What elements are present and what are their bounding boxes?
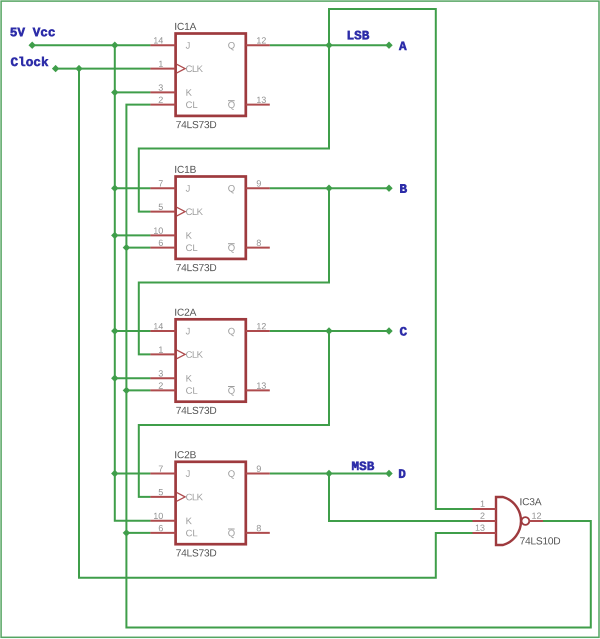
IC1A pin name CL (186, 101, 197, 108)
IC1B symbol body (176, 177, 246, 259)
net A endpoint (385, 42, 392, 49)
IC3A pin number 1 (481, 501, 485, 507)
wire net A from IC1A Q (270, 44, 389, 46)
junction CL chain at IC2A (123, 387, 130, 394)
IC3A pin number 2 (480, 513, 484, 519)
junction 5V rail 1 (111, 42, 118, 49)
IC1A pin 13 (Qbar) stub (246, 104, 270, 106)
IC3A input pin 1 stub (473, 508, 497, 510)
IC2A pin number 12 (257, 323, 266, 329)
IC2A pin 14 (J) stub (150, 330, 175, 332)
IC1A pin 1 (CLK) stub (150, 68, 175, 70)
IC1A pin number 14 (154, 37, 163, 43)
IC1B pin number 5 (159, 204, 163, 210)
IC1A pin number 2 (159, 97, 163, 103)
wire net A to IC1B CLK (139, 45, 329, 211)
net stub Clock endpoint (52, 65, 59, 72)
IC1B pin number 10 (154, 227, 163, 233)
wire net C to IC2B CLK (139, 331, 329, 497)
IC1B pin 9 (Q) stub (246, 187, 270, 189)
IC2A pin 1 (CLK) stub (150, 353, 175, 355)
NAND gate IC3A (74LS10D triple 3-input NAND) (473, 497, 561, 545)
IC3A pin number 12 (532, 513, 541, 519)
junction net B column (325, 185, 332, 192)
junction Clock rail (75, 65, 82, 72)
net label B (400, 184, 407, 192)
IC1B pin 8 (Qbar) stub (246, 247, 270, 249)
IC2A pin 12 (Q) stub (246, 330, 270, 332)
net label 5V Vcc (10, 28, 54, 37)
junction CL chain at IC2B (123, 529, 130, 536)
IC1A pin number 1 (159, 61, 163, 67)
IC1A pin 14 (J) stub (150, 44, 175, 46)
IC2A value label 74LS73D (176, 407, 216, 414)
IC1B value label 74LS73D (176, 264, 216, 271)
IC2B pin name CLK (186, 494, 203, 501)
flip-flop IC2A (74LS73D JK flip-flop) (150, 309, 269, 414)
junction net D column (325, 470, 332, 477)
net label Clock (11, 57, 48, 66)
junction CL chain at IC1B (123, 244, 130, 251)
IC1A pin 3 (K) stub (150, 91, 175, 93)
IC2A symbol body (176, 319, 246, 401)
IC2B pin number 6 (159, 525, 163, 531)
IC2A pin name CL (186, 387, 197, 394)
wire CL tap to IC1B pin CL (126, 247, 150, 249)
net D endpoint (385, 470, 392, 477)
IC1A pin name J (186, 42, 190, 49)
IC1B pin 6 (CL) stub (150, 247, 175, 249)
net label A (399, 42, 407, 50)
IC1B pin 5 (CLK) stub (150, 211, 175, 213)
wire net D from IC2B Q (270, 473, 389, 475)
IC1A pin number 3 (159, 84, 163, 90)
wire net B from IC1B Q (270, 187, 389, 189)
IC3A output pin 12 stub (529, 520, 543, 522)
net label MSB (352, 462, 374, 471)
IC1B pin number 8 (257, 240, 261, 246)
IC1B pin 10 (K) stub (150, 234, 175, 236)
wire CL chain from IC1A CL around bottom to IC3A output (126, 105, 590, 628)
IC2B pin name K (186, 518, 191, 525)
wire 5V tap to IC1B pin J (115, 187, 151, 189)
wire net A feedback over top to IC3A pin 1 (329, 9, 473, 509)
junction 5V rail 3 (111, 185, 118, 192)
wire 5V rail vertical with tap to IC2B pin K (115, 45, 151, 521)
IC2B clock edge triangle (177, 493, 185, 502)
IC1B pin name J (186, 185, 190, 192)
IC2A pin name Qbar (228, 387, 235, 395)
IC1A reference designator label (175, 23, 196, 30)
IC2B pin 10 (K) stub (150, 520, 175, 522)
IC3A input pin 2 stub (473, 520, 497, 522)
IC1B pin name Q (228, 185, 235, 193)
junction 5V rail 4 (111, 232, 118, 239)
IC2A pin number 1 (159, 347, 163, 353)
wire 5V tap to IC1B pin K (115, 234, 151, 236)
junction 5V rail 6 (111, 375, 118, 382)
wire net B to IC2A CLK (139, 188, 329, 354)
IC2B pin 7 (J) stub (150, 473, 175, 475)
IC2B reference designator label (175, 451, 196, 458)
IC3A value label 74LS10D (520, 537, 560, 544)
flip-flop IC1A (74LS73D JK flip-flop) (150, 23, 269, 128)
IC2B pin number 5 (159, 489, 163, 495)
IC1B clock edge triangle (177, 207, 185, 216)
IC3A pin number 13 (476, 525, 485, 531)
net label C (400, 327, 407, 336)
IC1B pin name CLK (186, 208, 203, 215)
IC1A clock edge triangle (177, 64, 185, 73)
IC2B pin number 9 (257, 466, 261, 472)
wire 5V tap to IC2B pin J (115, 473, 151, 475)
IC2A pin 3 (K) stub (150, 377, 175, 379)
IC1A pin name Qbar (228, 101, 235, 109)
flip-flop IC2B (74LS73D JK flip-flop) (150, 451, 269, 556)
net label D (399, 469, 405, 477)
IC1B pin name CL (186, 244, 197, 251)
flip-flop IC1B (74LS73D JK flip-flop) (150, 166, 269, 271)
IC1A pin name CLK (186, 65, 203, 72)
wire net C from IC2A Q (270, 330, 389, 332)
IC1B pin name Qbar (228, 244, 235, 252)
IC1A pin 12 (Q) stub (246, 44, 270, 46)
wire Clock horizontal to IC1A CLK (56, 68, 151, 70)
IC2A reference designator label (175, 309, 196, 316)
IC2A pin 13 (Qbar) stub (246, 389, 270, 391)
junction 5V rail 7 (111, 470, 118, 477)
IC2A pin 2 (CL) stub (150, 389, 175, 391)
IC2A pin number 14 (154, 323, 163, 329)
IC3A inversion bubble (522, 517, 530, 525)
IC1A symbol body (176, 34, 246, 116)
IC2A pin name K (186, 375, 191, 382)
IC2A clock edge triangle (177, 350, 185, 359)
IC2B pin name CL (186, 530, 197, 537)
IC1A pin number 12 (257, 37, 266, 43)
IC1B reference designator label (175, 166, 196, 173)
IC2B pin 8 (Qbar) stub (246, 532, 270, 534)
wire Clock vertical down and along bottom to IC3A pin 13 (79, 69, 473, 578)
IC2B symbol body (176, 462, 246, 544)
IC1B pin number 9 (257, 180, 261, 186)
IC2A pin name Q (228, 328, 235, 336)
IC1A pin 2 (CL) stub (150, 104, 175, 106)
net C endpoint (385, 327, 392, 334)
IC2B pin number 7 (159, 466, 163, 472)
junction 5V rail 2 (111, 89, 118, 96)
IC2B value label 74LS73D (176, 549, 216, 556)
wire 5V rail horizontal (32, 44, 150, 46)
net label LSB (348, 31, 369, 40)
IC2B pin number 10 (154, 513, 163, 519)
wire net D to IC3A pin 2 (329, 474, 473, 522)
IC1A pin name Q (228, 42, 235, 50)
net B endpoint (385, 185, 392, 192)
IC2B pin 5 (CLK) stub (150, 496, 175, 498)
IC1B pin number 6 (159, 240, 163, 246)
IC2B pin name J (186, 470, 190, 477)
IC3A input pin 13 stub (473, 532, 497, 534)
IC1A pin name K (186, 89, 191, 96)
junction net C column (325, 327, 332, 334)
IC1A value label 74LS73D (176, 121, 216, 128)
IC3A gate body (496, 497, 521, 545)
IC3A reference designator label (520, 498, 541, 505)
IC2B pin number 8 (257, 525, 261, 531)
IC2A pin number 2 (159, 382, 163, 388)
IC2B pin 6 (CL) stub (150, 532, 175, 534)
IC1B pin number 7 (159, 180, 163, 186)
IC1B pin 7 (J) stub (150, 187, 175, 189)
IC2B pin name Q (228, 470, 235, 478)
IC2A pin name CLK (186, 351, 203, 358)
IC2B pin 9 (Q) stub (246, 473, 270, 475)
IC2A pin number 3 (159, 370, 163, 376)
wire 5V tap to IC2A pin K (115, 377, 151, 379)
IC1B pin name K (186, 232, 191, 239)
IC2A pin name J (186, 328, 190, 335)
IC2A pin number 13 (257, 382, 266, 388)
wire 5V tap to IC1A pin K (115, 91, 151, 93)
junction net A column (325, 42, 332, 49)
net stub 5V Vcc endpoint (29, 42, 36, 49)
wire CL tap to IC2A pin CL (126, 389, 150, 391)
junction 5V rail 5 (111, 327, 118, 334)
wire 5V tap to IC2A pin J (115, 330, 151, 332)
wire CL tap to IC2B pin CL (126, 532, 150, 534)
IC2B pin name Qbar (228, 530, 235, 538)
IC1A pin number 13 (257, 97, 266, 103)
